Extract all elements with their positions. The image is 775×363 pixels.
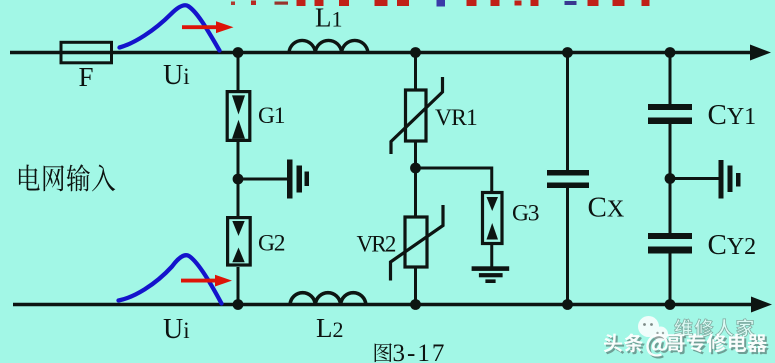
wire to chassis ground right xyxy=(670,177,719,180)
svg-text:Ui: Ui xyxy=(163,314,190,345)
ground (sideways) left xyxy=(287,160,293,199)
varistor VR1 xyxy=(406,90,427,141)
inductor L2 xyxy=(290,293,366,305)
surge waveform Ui bottom (blue) xyxy=(119,255,222,303)
svg-text:L1: L1 xyxy=(315,3,343,33)
node junction VR1-VR2-G3 xyxy=(410,163,421,174)
svg-text:CY2: CY2 xyxy=(708,229,757,261)
node dots bottom rail xyxy=(233,299,244,310)
watermark logo circles xyxy=(638,316,668,342)
capacitor CX xyxy=(547,170,589,176)
wire branch1 bottom segment xyxy=(237,267,240,305)
label 电网输入 (mains input) xyxy=(19,165,40,191)
svg-text:3-17: 3-17 xyxy=(393,340,447,363)
svg-text:CX: CX xyxy=(588,192,625,224)
node junction CY-ground xyxy=(665,173,676,184)
watermark 维修人家 xyxy=(674,319,754,337)
node junction branch1-ground xyxy=(233,174,244,185)
inductor L1 xyxy=(289,40,368,52)
gas discharge tube G3 xyxy=(483,193,503,244)
svg-text:VR2: VR2 xyxy=(357,232,396,257)
wire to chassis ground 1 xyxy=(238,178,288,181)
wire branch2 top segment xyxy=(414,53,417,91)
gas discharge tube G2 xyxy=(228,218,251,265)
svg-text:G3: G3 xyxy=(512,201,539,227)
wire branch4 bottom segment xyxy=(669,254,672,305)
node arrow: top rail output xyxy=(750,45,771,61)
wire top rail L xyxy=(10,51,752,54)
svg-text:G1: G1 xyxy=(258,103,285,129)
watermark 头条@哥专修电器 shadow xyxy=(606,335,769,358)
svg-text:L2: L2 xyxy=(316,313,344,343)
wire bottom rail N xyxy=(13,303,753,306)
wire branch2 mid segment xyxy=(414,141,417,217)
capacitor CY1 xyxy=(648,104,692,110)
node arrow: bottom rail output xyxy=(751,297,772,313)
node dots top rail xyxy=(233,47,244,58)
capacitor CY2 xyxy=(648,233,692,239)
fuse F xyxy=(61,42,112,63)
wire branch4 mid segment xyxy=(669,124,672,234)
wire G3 to ground xyxy=(490,243,493,267)
wire branch1 top segment xyxy=(237,53,240,91)
gas discharge tube G1 xyxy=(227,92,250,141)
surge waveform Ui top (blue) xyxy=(120,5,220,50)
svg-text:F: F xyxy=(78,62,93,92)
ground (sideways) right xyxy=(719,160,724,199)
arrow: surge direction bottom (red) xyxy=(181,279,218,283)
wire branch4 top segment xyxy=(669,53,672,105)
svg-text:VR1: VR1 xyxy=(435,105,477,131)
label 图3-17 (figure caption) xyxy=(375,343,392,362)
title fragments (cropped red heading) xyxy=(231,2,235,6)
wire branch2 bottom segment xyxy=(414,267,417,305)
wire to G3 xyxy=(416,168,492,193)
arrow: surge direction top (red) xyxy=(182,25,220,29)
ground under G3 xyxy=(472,266,510,271)
varistor VR2 xyxy=(405,217,427,267)
svg-text:Ui: Ui xyxy=(163,60,190,91)
svg-text:CY1: CY1 xyxy=(708,99,757,131)
watermark 头条@哥专修电器 xyxy=(604,333,767,356)
wire branch3 bottom segment xyxy=(566,188,569,305)
wire branch1 mid segment xyxy=(237,142,240,217)
svg-text:G2: G2 xyxy=(258,231,285,257)
wire branch3 top segment xyxy=(566,53,569,171)
